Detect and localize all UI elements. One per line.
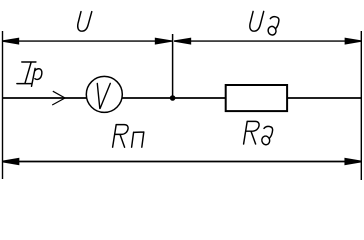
dimension total width (bottom) xyxy=(3,159,362,164)
label Ip xyxy=(17,62,42,86)
label Rd xyxy=(244,121,273,145)
wire: node A to resistor xyxy=(173,97,226,99)
voltmeter letter V xyxy=(97,83,110,108)
label U xyxy=(78,12,92,32)
left terminal rail xyxy=(2,31,4,179)
node A junction dot xyxy=(170,95,176,101)
wire: voltmeter to node A xyxy=(122,97,172,99)
right terminal rail xyxy=(360,31,362,180)
label Ud xyxy=(250,11,279,36)
sense lead from node A up xyxy=(172,34,174,98)
dimension Ud (line and arrows) xyxy=(174,38,361,43)
voltmeter Rp (circle) xyxy=(86,76,122,112)
label Rp xyxy=(113,125,144,148)
wire: resistor to right rail xyxy=(287,97,361,99)
wire: left rail to voltmeter xyxy=(3,97,87,99)
resistor Rd xyxy=(226,85,287,111)
current direction arrow xyxy=(52,91,65,105)
dimension U (line and arrows) xyxy=(3,38,173,43)
